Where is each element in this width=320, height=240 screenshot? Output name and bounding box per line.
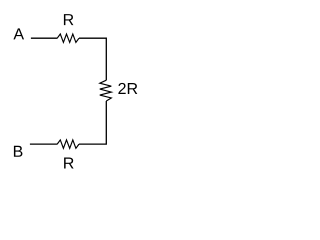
resistor 2R	[100, 80, 112, 101]
label 2R (middle resistor value)	[118, 83, 137, 94]
node B	[14, 146, 23, 157]
label R (bottom resistor value)	[64, 157, 74, 168]
wire	[79, 38, 106, 80]
wire	[31, 37, 58, 39]
label R (top resistor value)	[64, 14, 74, 25]
resistor R2	[57, 140, 79, 148]
wire	[79, 101, 106, 144]
node A	[13, 28, 24, 39]
resistor R1	[57, 34, 79, 42]
wire	[30, 143, 58, 145]
